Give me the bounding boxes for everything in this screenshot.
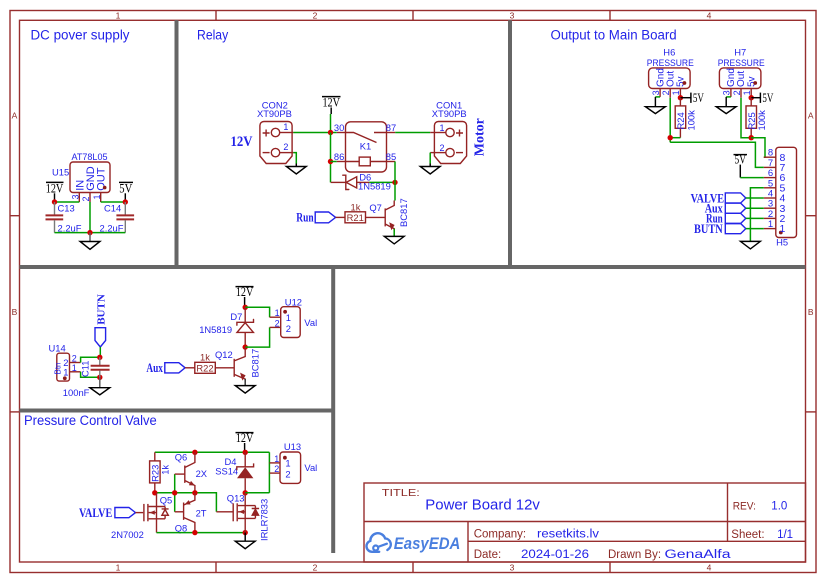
svg-text:BUTN: BUTN (95, 294, 107, 325)
wire 85 to junction (394, 162, 396, 183)
title block row divider 1 (364, 521, 806, 523)
wire D6 anode to junction (369, 181, 395, 183)
left band tick 2 (10, 411, 20, 413)
section divider horizontal row A/B (20, 265, 806, 269)
U13 pin1 indicator dot (283, 456, 287, 460)
section divider vertical DC/Relay (175, 20, 179, 267)
svg-text:Q13: Q13 (227, 492, 245, 503)
junction at 86 (328, 159, 333, 164)
CON1 minus sign (456, 152, 463, 154)
ground under H7 (725, 97, 727, 107)
svg-text:1: 1 (768, 219, 773, 230)
svg-text:86: 86 (334, 151, 344, 162)
CON2 pin1 stub (280, 132, 294, 134)
wire CON1 pin2 to ground (429, 153, 431, 164)
wire bottom rail (157, 532, 246, 534)
svg-text:Date:: Date: (474, 549, 502, 561)
wire R22 to Q12 base (215, 367, 234, 369)
svg-text:Output to Main Board: Output to Main Board (551, 27, 677, 42)
H7 pin stubs (730, 89, 732, 97)
left band tick 1 (10, 215, 20, 217)
Q5 body diode (162, 507, 169, 519)
transistor Q12 BC817 symbol (233, 359, 235, 377)
wire 12V down to 86 (330, 133, 332, 183)
junction Q6 collector (192, 450, 197, 455)
capacitor C13 (46, 214, 64, 216)
junction right (123, 199, 128, 204)
Q13 body diode filled (252, 506, 259, 519)
U12 pin1 stub (270, 316, 281, 318)
D4 top lead (244, 452, 246, 467)
svg-text:VALVE: VALVE (79, 505, 112, 520)
svg-text:100nF: 100nF (63, 387, 90, 398)
svg-text:1: 1 (286, 312, 291, 323)
title block outline (364, 483, 806, 562)
junction C11 bottom (97, 375, 102, 380)
SECTION: output (646, 47, 797, 249)
U15 pin 1 stub (100, 193, 102, 203)
ground symbol (89, 233, 91, 242)
junction R23/Q5 drain (152, 490, 157, 495)
U14 pin2 stub (70, 362, 81, 364)
svg-text:2024-01-26: 2024-01-26 (521, 549, 589, 561)
svg-text:EasyEDA: EasyEDA (394, 535, 461, 553)
svg-text:1: 1 (72, 363, 77, 373)
junction left (52, 199, 57, 204)
svg-text:Company:: Company: (474, 528, 526, 540)
R25 bottom lead (750, 128, 752, 137)
svg-text:D7: D7 (230, 311, 242, 322)
svg-text:2X: 2X (196, 468, 208, 479)
wire C13 top (54, 202, 56, 215)
svg-text:PRESSURE: PRESSURE (718, 57, 765, 68)
title block row divider 2 (468, 540, 806, 542)
wire H6 out down (669, 98, 671, 143)
Q6 base wire to Q8 base (174, 474, 176, 512)
svg-text:Power Board 12v: Power Board 12v (425, 497, 540, 514)
svg-text:A: A (12, 111, 18, 121)
wire Q12 emitter to ground (244, 379, 246, 386)
wire VALVE to Q5 gate (136, 512, 144, 514)
svg-text:2: 2 (313, 562, 318, 572)
D4 bottom lead (244, 478, 246, 493)
wire C14 top (124, 202, 126, 215)
svg-text:1.0: 1.0 (771, 501, 787, 513)
ground under Q7 (384, 236, 404, 244)
connector H7 body (719, 68, 761, 89)
SECTION: titleblock (364, 483, 806, 562)
U15 pin 2 stub (89, 193, 91, 203)
resistor R23 top lead (154, 452, 156, 461)
CON2 pin2 circle (271, 148, 279, 156)
svg-text:SS14: SS14 (215, 466, 238, 477)
connector CON2 XT90PB body (260, 122, 292, 164)
svg-text:Q12: Q12 (215, 349, 233, 360)
resistor R23 body (150, 461, 161, 483)
capacitor C14 (116, 214, 134, 216)
wire BUTN to pin1 (746, 228, 764, 230)
svg-text:Run: Run (296, 209, 314, 224)
svg-text:IRLR7833: IRLR7833 (259, 499, 270, 541)
U15 pin1 indicator dot (103, 186, 107, 190)
junction base tie (172, 490, 177, 495)
junction Q6 emitter (192, 490, 197, 495)
wire VALVE to pin4 (746, 197, 764, 199)
H5 pin 7 (764, 166, 776, 168)
capacitor C11 (91, 365, 110, 367)
svg-text:C11: C11 (79, 360, 90, 377)
diode D6 1N5819 symbol (343, 175, 349, 189)
connector CON1 XT90PB body (434, 122, 466, 164)
C11 top lead (99, 357, 101, 365)
wire to pin 86 (331, 161, 337, 163)
svg-text:Pressure Control Valve: Pressure Control Valve (24, 413, 157, 428)
svg-text:XT90PB: XT90PB (432, 108, 467, 119)
svg-text:R21: R21 (347, 212, 364, 223)
svg-text:1: 1 (116, 10, 121, 20)
H5 pin 3 (764, 207, 776, 209)
svg-text:2: 2 (286, 323, 291, 334)
wire Run to pin2 (746, 217, 764, 219)
bottom band tick 1 (215, 562, 217, 573)
svg-text:2: 2 (283, 142, 288, 152)
Q13 drain/source vertical (244, 493, 246, 533)
junction D4/Q13 (243, 490, 248, 495)
svg-text:4: 4 (707, 10, 712, 20)
connector U12 body (281, 307, 301, 338)
svg-text:Q7: Q7 (369, 202, 382, 213)
K1 switch contact (346, 133, 387, 143)
wire GND pin down (89, 202, 91, 233)
K1 coil (346, 161, 387, 163)
svg-text:87: 87 (386, 122, 396, 133)
right band tick 1 (806, 215, 817, 217)
wire H6 gnd jog (655, 96, 660, 98)
junction Q8 collector (192, 530, 197, 535)
svg-text:1: 1 (283, 122, 288, 132)
junction 12V/D4 (243, 450, 248, 455)
CON2 minus sign (263, 152, 270, 154)
svg-text:5V: 5V (735, 152, 747, 167)
junction H6 5v (678, 95, 683, 100)
resistor R24 top lead (679, 98, 681, 106)
svg-text:Btn: Btn (54, 362, 63, 374)
U12 pin2 stub (270, 326, 281, 328)
U15 pin 3 stub (78, 193, 80, 203)
H6 pin1 indicator dot (683, 81, 687, 85)
right band tick 2 (806, 411, 817, 413)
svg-text:5V: 5V (693, 90, 704, 105)
wire junction to U12 pin2 (245, 327, 269, 347)
svg-text:1/1: 1/1 (777, 529, 793, 541)
U13 pin1 stub (269, 462, 280, 464)
junction BUTN/C11 top (97, 355, 102, 360)
U13 pin2 stub (269, 472, 280, 474)
connector U14 body (57, 353, 70, 381)
wire 12V to pin3 (55, 201, 80, 203)
D7 bottom lead (244, 332, 246, 347)
wire H7 out down (741, 98, 751, 138)
CON2 pin1 circle (271, 128, 279, 136)
svg-text:R22: R22 (196, 363, 213, 374)
wire C14 bottom (124, 220, 126, 232)
svg-text:U15: U15 (52, 166, 69, 177)
svg-text:2: 2 (285, 469, 290, 480)
junction Q13 source (243, 530, 248, 535)
svg-text:2: 2 (313, 10, 318, 20)
net flag 5V right of H6 (680, 97, 691, 99)
section divider vertical Relay/Output (508, 20, 512, 267)
resistor R25 body (746, 106, 757, 128)
K1 pin 87 stub (387, 132, 396, 134)
H5 pin1 indicator dot (779, 231, 783, 235)
svg-text:Q5: Q5 (160, 495, 173, 506)
svg-text:REV:: REV: (733, 501, 756, 513)
K1 pin 85 stub (387, 161, 396, 163)
C11 bottom lead (99, 371, 101, 378)
net flag 5V right of H7 (751, 97, 760, 99)
svg-text:PRESSURE: PRESSURE (647, 57, 694, 68)
wire pin1 to 5V (101, 201, 126, 203)
svg-text:2.2uF: 2.2uF (58, 222, 82, 233)
section divider vertical B boxes (331, 267, 335, 553)
wire pin5 to ground (750, 188, 763, 241)
relay K1 body (346, 122, 387, 172)
svg-text:100k: 100k (685, 110, 696, 131)
svg-text:B: B (808, 307, 814, 317)
svg-text:A: A (808, 111, 814, 121)
svg-text:1: 1 (275, 308, 280, 318)
svg-text:1: 1 (440, 123, 445, 133)
svg-text:Aux: Aux (146, 360, 163, 375)
H5 pin 1 (764, 228, 776, 230)
bottom band tick 3 (609, 562, 611, 573)
svg-text:BC817: BC817 (249, 349, 260, 378)
SECTION: relay (231, 95, 488, 244)
svg-text:1: 1 (63, 367, 68, 378)
H7 pin1 indicator dot (753, 81, 757, 85)
wire Run to R21 (336, 216, 345, 218)
wire Q7 emitter to ground (393, 229, 395, 236)
wire mid rail (155, 493, 217, 512)
wire BUTN down (99, 347, 101, 357)
svg-text:Sheet:: Sheet: (731, 529, 764, 541)
connector H5 body (776, 147, 797, 237)
wire junction down to Q7 (394, 182, 396, 200)
svg-text:U14: U14 (49, 343, 66, 354)
CON1 plus sign (456, 130, 463, 137)
transistor Q5 2N7002 symbol (143, 504, 145, 521)
wire H7 gnd jog (726, 96, 731, 98)
ground under H6 (654, 97, 656, 107)
SECTION: bsection (49, 284, 318, 398)
svg-text:2T: 2T (196, 507, 207, 518)
wire CON2 to K1 (293, 132, 336, 134)
svg-text:12V: 12V (231, 134, 253, 150)
wire H7 net to H5 pin8 (751, 138, 765, 158)
wire H6 net to H5 pin7 (670, 142, 764, 167)
svg-text:BC817: BC817 (398, 198, 409, 227)
SECTION: pressure (79, 430, 317, 549)
svg-text:XT90PB: XT90PB (257, 108, 292, 119)
wire 12V down to rail (330, 114, 332, 133)
CON1 pin1 circle (446, 128, 454, 136)
svg-text:5V: 5V (762, 90, 773, 105)
H5 pin 4 (764, 197, 776, 199)
Q8 base lead (175, 511, 184, 513)
wire ground rail (55, 232, 126, 234)
svg-text:1: 1 (116, 562, 121, 572)
svg-text:BUTN: BUTN (694, 221, 723, 236)
svg-text:Val: Val (304, 462, 317, 473)
transistor Q7 BC817 symbol (384, 208, 386, 226)
svg-text:3: 3 (510, 10, 515, 20)
svg-text:TITLE:: TITLE: (382, 488, 420, 499)
D7 top lead (244, 307, 246, 322)
resistor R25 top lead (750, 98, 752, 106)
svg-text:K1: K1 (360, 141, 371, 152)
wire U14 pin1 to gnd junction (81, 372, 100, 378)
svg-text:4: 4 (707, 562, 712, 572)
resistor R24 body (675, 106, 686, 128)
resistor R22 body (195, 362, 216, 373)
U14 pin1 stub (70, 371, 81, 373)
Q5 drain/source vertical (156, 493, 158, 533)
svg-text:1: 1 (780, 223, 786, 235)
connector H6 body (649, 68, 691, 89)
wire CON2 pin2 to ground (293, 153, 296, 164)
wire top rail (155, 451, 270, 453)
wire D4 junction to U13 (245, 492, 269, 494)
svg-text:1: 1 (285, 458, 290, 469)
wire 5V to pin6 (740, 177, 764, 179)
svg-text:AT78L05: AT78L05 (72, 151, 108, 162)
junction H6 out/R24 (668, 135, 673, 140)
transistor Q13 IRLR7833 symbol (232, 503, 234, 521)
wire Aux to R22 (185, 367, 195, 369)
resistor R21 body (345, 212, 366, 223)
junction D7/Q12 (243, 344, 248, 349)
junction H7 5v (749, 95, 754, 100)
svg-text:1k: 1k (200, 352, 210, 363)
svg-text:C13: C13 (58, 202, 75, 213)
wire R24 bottom to junction (670, 137, 680, 139)
svg-text:85: 85 (386, 151, 396, 162)
junction ground (87, 230, 92, 235)
top band tick 1 (215, 11, 217, 21)
top band tick 3 (609, 11, 611, 21)
CON2 pin2 stub (280, 152, 294, 154)
K1 pin 86 stub (337, 161, 346, 163)
svg-text:U13: U13 (284, 441, 301, 452)
SECTION: dcsupply (46, 151, 135, 249)
wire K1 87 to CON1 (395, 132, 430, 134)
H5 pin 8 (764, 156, 776, 158)
svg-text:Q6: Q6 (175, 451, 188, 462)
svg-text:3: 3 (510, 562, 515, 572)
svg-text:2.2uF: 2.2uF (100, 222, 124, 233)
H5 pin 5 (764, 187, 776, 189)
svg-text:1k: 1k (351, 202, 361, 213)
svg-text:1k: 1k (159, 465, 170, 475)
CON1 pin2 circle (446, 148, 454, 156)
wire C13 bottom (54, 220, 56, 232)
svg-text:30: 30 (334, 122, 344, 133)
top band tick 2 (412, 11, 414, 21)
wire R21 to Q7 base (366, 216, 385, 218)
diode D7 symbol schottky (237, 319, 254, 325)
svg-text:Relay: Relay (197, 27, 228, 42)
svg-text:Q8: Q8 (175, 522, 188, 533)
svg-text:H5: H5 (776, 237, 788, 248)
svg-text:Motor: Motor (473, 118, 488, 156)
svg-text:GenaAlfa: GenaAlfa (665, 549, 732, 561)
net flag 5V mid (734, 154, 748, 156)
wire junction to U12 pin1 (245, 307, 269, 317)
bottom band tick 2 (412, 562, 414, 573)
CON1 pin2 stub (430, 152, 446, 154)
title block REV cell divider (727, 483, 729, 541)
ground under CON2 (295, 164, 297, 167)
ground under CON1 (429, 164, 431, 167)
svg-text:1N5819: 1N5819 (199, 324, 232, 335)
junction 12V rail (328, 130, 333, 135)
wire U14 pin2 to BUTN junction (81, 357, 100, 362)
svg-text:U12: U12 (285, 296, 302, 307)
svg-text:C14: C14 (104, 202, 121, 213)
svg-text:100k: 100k (756, 110, 767, 131)
ground under H5 (741, 241, 761, 249)
junction D6/Q7 (392, 180, 397, 185)
transistor Q8 symbol PNP (183, 503, 185, 520)
H5 pin 6 (764, 177, 776, 179)
transistor Q6 symbol (184, 466, 186, 483)
svg-text:resetkits.lv: resetkits.lv (537, 528, 599, 540)
H5 pin 2 (764, 217, 776, 219)
diode D4 symbol schottky filled (237, 463, 254, 470)
wire Aux to pin3 (746, 207, 764, 209)
svg-text:2: 2 (440, 143, 445, 153)
title block logo cell divider (467, 522, 469, 563)
CON2 plus sign (263, 130, 270, 137)
svg-text:DC pover supply: DC pover supply (31, 27, 130, 42)
Q12 collector lead (244, 347, 246, 351)
wire U13 vertical (268, 452, 270, 493)
H6 pin stubs (659, 89, 661, 97)
ground under Q12 (235, 386, 255, 394)
CON1 pin1 stub (430, 132, 446, 134)
junction H7 out/R25 (749, 135, 754, 140)
regulator U15 AT78L05 body (70, 162, 110, 193)
ground under Q13 (244, 533, 246, 542)
ground under C11 (99, 377, 101, 387)
svg-text:2N7002: 2N7002 (111, 529, 144, 540)
svg-text:Val: Val (304, 317, 317, 328)
EasyEDA logo cloud (367, 533, 391, 552)
svg-text:2: 2 (275, 318, 280, 328)
R23 bottom lead (154, 483, 156, 493)
U12 pin1 indicator dot (283, 310, 287, 314)
R24 bottom lead (679, 128, 681, 137)
junction 12V/D7 (243, 305, 248, 310)
section divider horizontal BUTN/Pressure (20, 409, 334, 413)
svg-text:B: B (12, 307, 18, 317)
U14 pin1 indicator dot (63, 376, 67, 380)
svg-text:2: 2 (274, 464, 279, 474)
connector U13 body (280, 452, 301, 483)
svg-text:1: 1 (274, 454, 279, 464)
svg-text:Drawn By:: Drawn By: (608, 549, 661, 561)
